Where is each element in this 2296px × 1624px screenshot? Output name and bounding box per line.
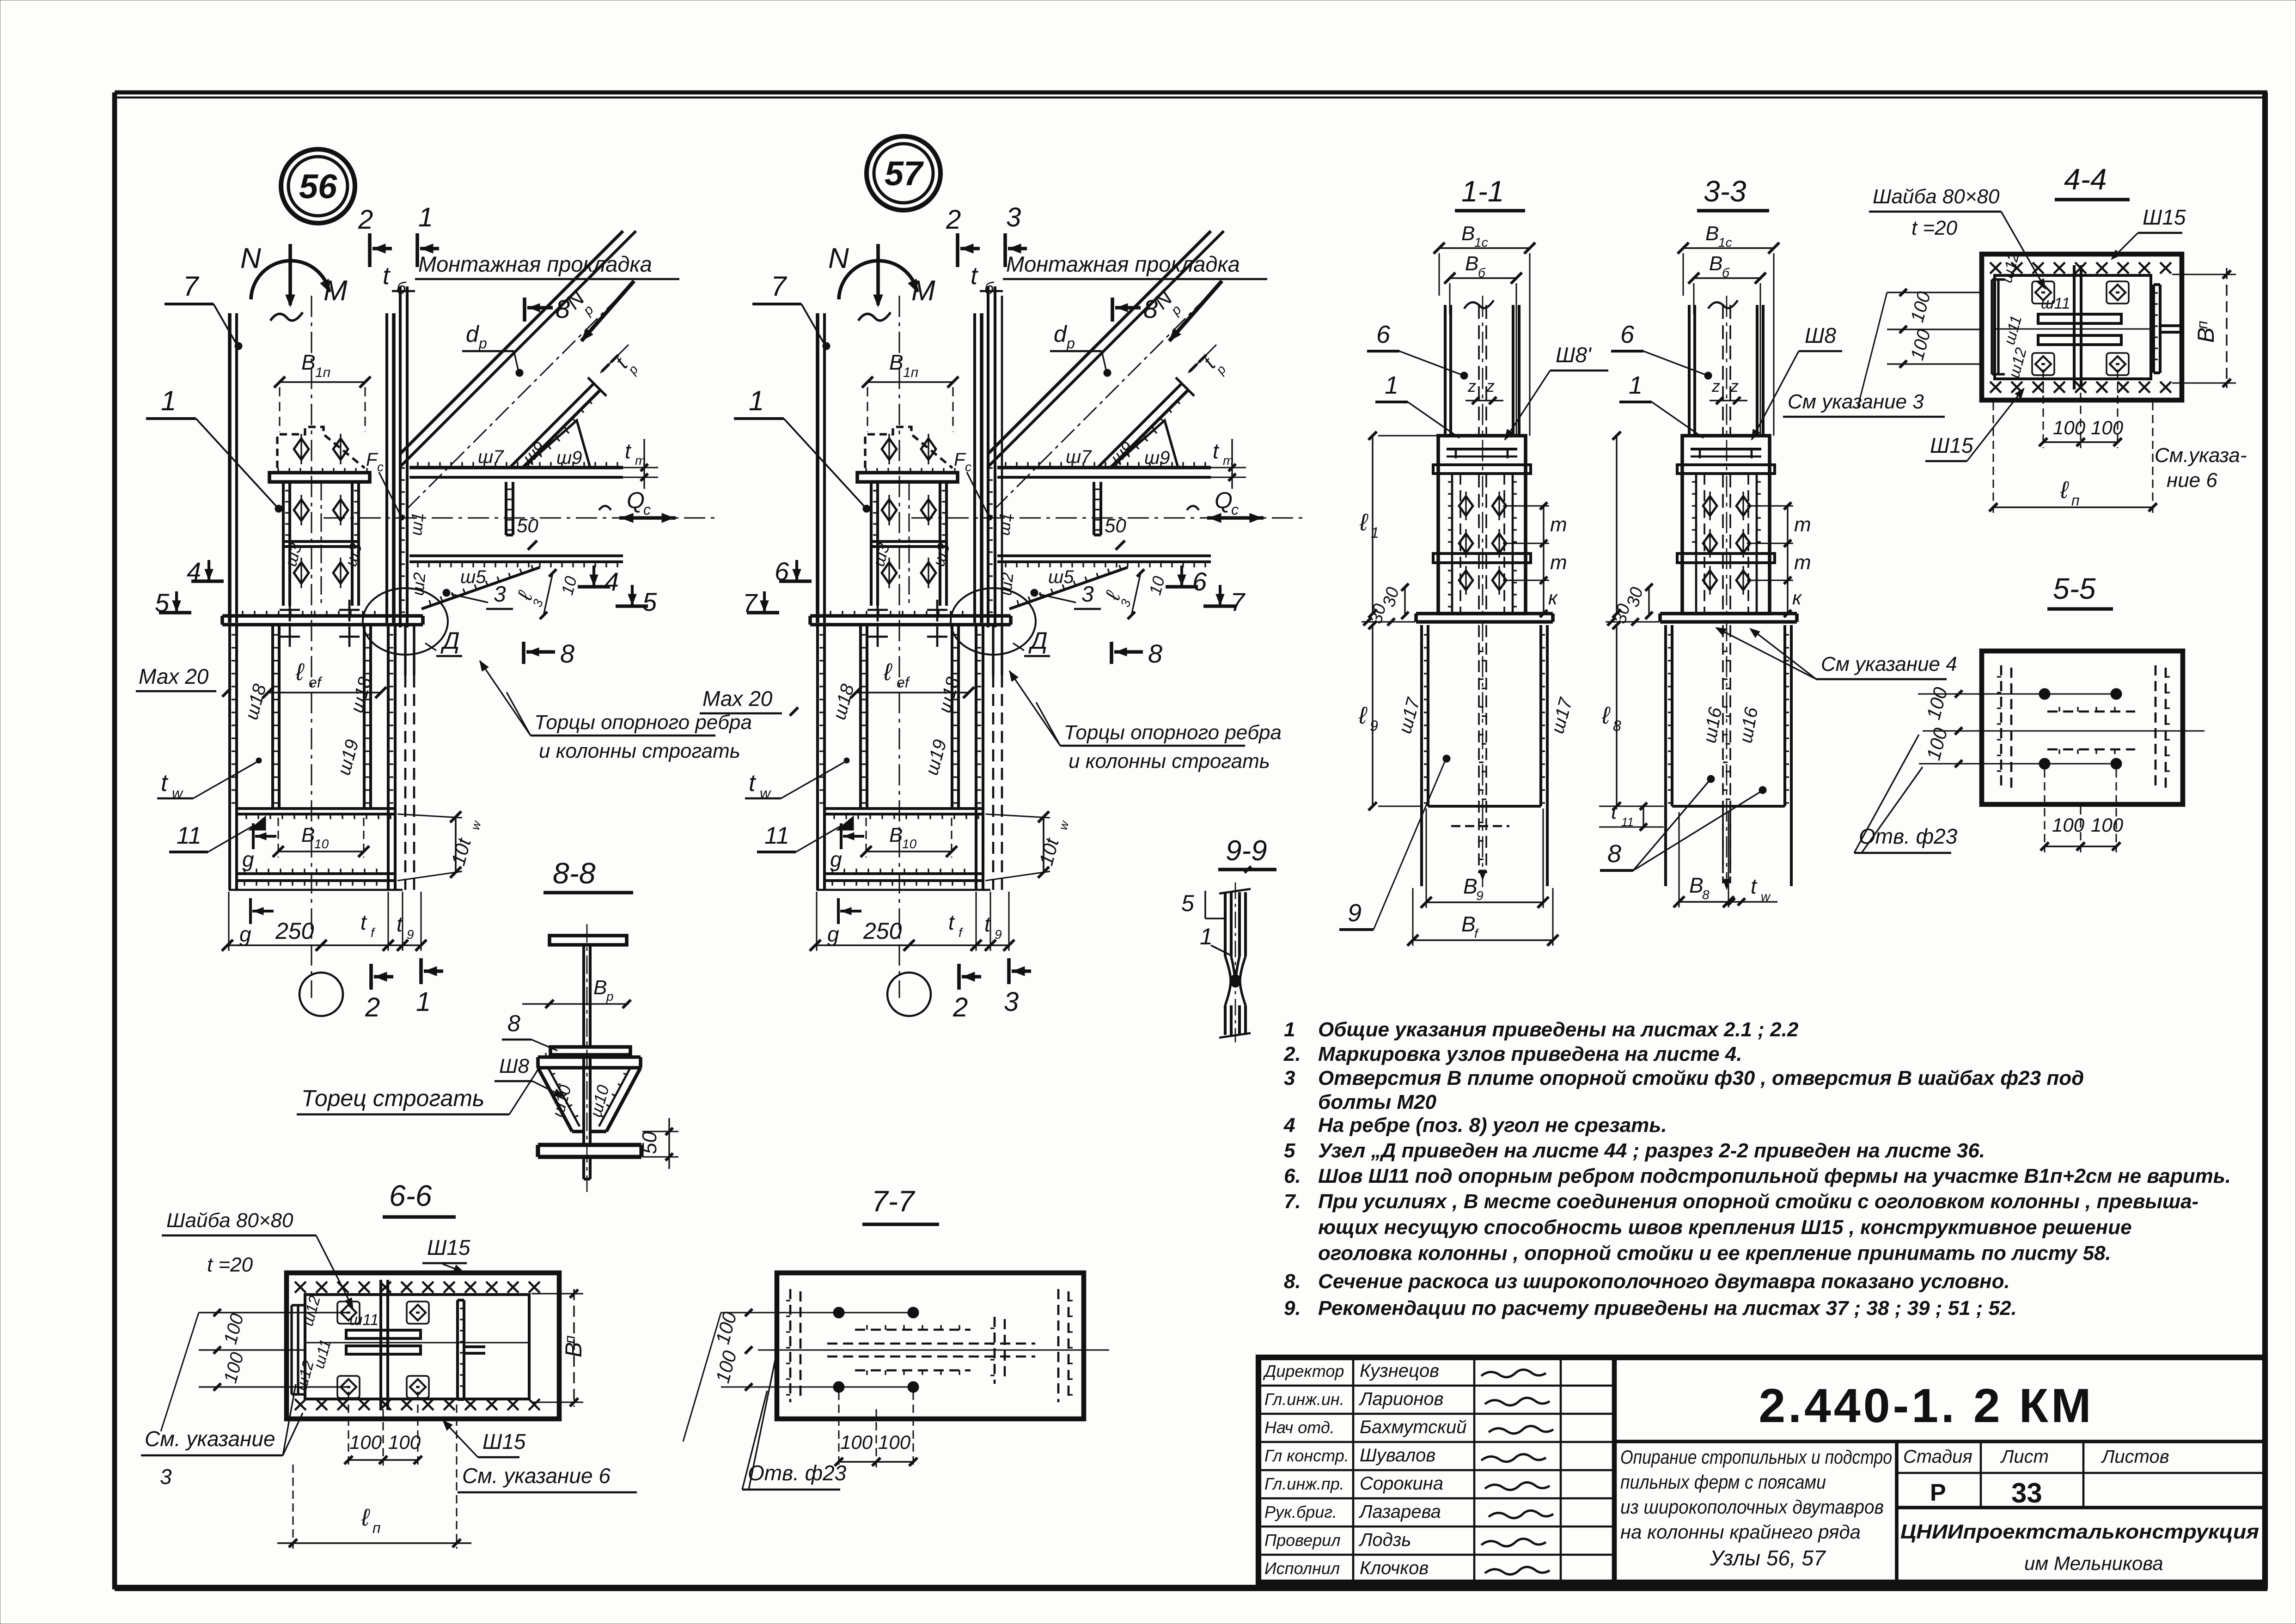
svg-text:8.: 8. [1284,1270,1301,1293]
node 56 column cut line [229,889,403,891]
node 56 bottom section markers [369,964,373,990]
svg-text:2: 2 [953,992,968,1022]
node 56 moment symbol N M [288,244,292,305]
svg-text:Шайба 80×80: Шайба 80×80 [166,1209,293,1232]
section 1-1 post inner lines [1451,474,1453,614]
section 8-8 post top plate [538,1055,641,1059]
svg-text:Отверстия В плите опорно: Отверстия В плите опорной стойки ф30 , о… [1318,1067,2084,1089]
node 57 cap plate (опорное ребро) [810,614,1011,618]
node 56 bracket dashed tab plate [277,427,365,468]
svg-text:В: В [301,824,315,846]
section 7-7 left hidden channel [789,1289,792,1402]
node 56 lower column bottom plate [236,872,396,875]
node 56 dimension 10tw [455,817,457,872]
node 56 column centerline [311,296,312,998]
node 56 bracket bolts [294,499,309,521]
svg-text:t: t [1213,439,1220,463]
svg-text:5-5: 5-5 [2053,572,2096,605]
svg-text:На ребре (поз. 8) угол не с: На ребре (поз. 8) угол не срезать. [1318,1114,1667,1137]
svg-text:F: F [366,450,379,470]
section 4-4 central web [2073,265,2076,389]
node 57 rib below cap [992,625,994,675]
section 4-4 x weld rows [1990,262,2171,274]
section 6-6 left dims 100 [199,1312,348,1313]
svg-text:Сорокина: Сорокина [1360,1473,1443,1494]
svg-text:оголовка колонны , опорной: оголовка колонны , опорной стойки и ее к… [1318,1242,2111,1265]
svg-text:z: z [1486,377,1495,395]
svg-text:2.440-1. 2 КМ: 2.440-1. 2 КМ [1759,1379,2094,1433]
section 4-4 bolts [2032,281,2054,304]
section 3-3 post collars [1677,465,1775,474]
svg-text:N: N [828,243,849,274]
node 57 top section markers [956,233,959,267]
section 9-9 column sketch [1224,892,1227,956]
section 4-4 Ш11 strips [2038,314,2121,323]
svg-text:50: 50 [1105,515,1126,536]
node 56 marker g lower [249,898,252,924]
svg-text:ш1: ш1 [406,511,427,536]
svg-text:100: 100 [2052,814,2085,836]
svg-text:1: 1 [1629,371,1643,399]
svg-text:Гл.инж.ин.: Гл.инж.ин. [1264,1390,1344,1409]
svg-text:им Мельникова: им Мельникова [2024,1552,2163,1574]
svg-text:п: п [2194,321,2211,329]
svg-text:g: g [242,847,254,871]
node 56 dimension B1п [280,381,365,383]
svg-text:В: В [1463,874,1478,898]
svg-text:1: 1 [161,385,176,416]
svg-text:ш11: ш11 [349,1311,379,1329]
node 57 bracket I-section [870,482,873,606]
svg-text:6: 6 [1192,567,1207,596]
node 57 section marker 8 upper [1111,298,1114,322]
svg-text:11: 11 [177,822,202,849]
svg-text:Ш8': Ш8' [1556,343,1592,367]
svg-text:6: 6 [1620,321,1635,348]
svg-text:2: 2 [358,205,373,235]
svg-text:8-8: 8-8 [553,857,596,890]
svg-text:Шов Ш11 под опорным ребром по: Шов Ш11 под опорным ребром подстропильно… [1318,1165,2231,1187]
svg-text:из широкополочных двутавров: из широкополочных двутавров [1620,1496,1884,1518]
svg-text:11: 11 [764,822,789,849]
section 1-1 post bolts [1459,496,1473,516]
node 57 gusset triangle [1111,420,1178,468]
svg-text:2.: 2. [1283,1043,1301,1065]
svg-text:См. указание 6: См. указание 6 [462,1464,611,1488]
svg-text:t: t [1751,874,1758,898]
node 56 detail circle Д [363,588,448,655]
svg-text:ℓ: ℓ [1358,702,1368,729]
svg-text:ш5: ш5 [460,567,486,587]
svg-text:Монтажная прокладка: Монтажная прокладка [418,252,652,276]
svg-text:Ш15: Ш15 [482,1429,526,1454]
svg-text:7: 7 [1230,587,1246,616]
node 56 mounting plate (прокладка) [399,286,402,627]
svg-text:1-1: 1-1 [1461,175,1504,208]
svg-text:c: c [1231,501,1239,518]
svg-text:z: z [1711,377,1720,395]
svg-text:7.: 7. [1284,1190,1301,1213]
svg-text:5: 5 [642,587,657,616]
svg-text:Ш8: Ш8 [499,1055,529,1077]
section 4-4 outer box [1982,254,2182,400]
svg-text:1: 1 [1385,371,1398,399]
svg-text:Исполнил: Исполнил [1264,1559,1340,1578]
svg-text:ш7: ш7 [1066,447,1092,467]
svg-text:9.: 9. [1284,1297,1301,1320]
section 7-7 axis lines [758,1350,1109,1351]
node 57 column upper flanges [816,313,819,623]
svg-text:6-6: 6-6 [389,1179,432,1212]
section 7-7 center hidden plates [855,1329,971,1331]
svg-text:8: 8 [507,1010,520,1036]
svg-text:Ш8: Ш8 [1805,323,1836,347]
node 56 beam stiffener and 50 [505,482,507,535]
svg-text:В: В [1689,873,1704,897]
section 3-3 dims m m k [1787,506,1788,580]
section 6-6 bolts [337,1302,360,1324]
svg-text:3: 3 [1006,202,1021,232]
node 57 dimension lef [856,692,969,693]
svg-text:Гл.инж.пр.: Гл.инж.пр. [1264,1474,1344,1493]
svg-text:Стадия: Стадия [1903,1447,1972,1467]
svg-text:4: 4 [605,567,619,596]
svg-text:ℓ: ℓ [2060,477,2069,504]
svg-text:57: 57 [885,154,924,193]
svg-text:7: 7 [183,271,200,302]
node 56 lower column flanges [228,625,231,890]
svg-text:и колонны строгать: и колонны строгать [1069,750,1270,772]
svg-text:d: d [1054,321,1068,347]
svg-text:Рекомендации по расчету пр: Рекомендации по расчету приведены на лис… [1318,1297,2017,1320]
svg-text:ℓ: ℓ [1359,509,1368,536]
svg-text:Клочков: Клочков [1360,1558,1429,1578]
node 57 diagonal ш5 plate [1009,567,1128,609]
svg-text:В: В [1465,252,1478,275]
section 5-5 outer box [1982,651,2183,804]
svg-text:Общие указания приведены: Общие указания приведены на листах 2.1 ;… [1318,1018,1799,1041]
node 56 column upper flanges [228,313,232,623]
svg-text:ℓ: ℓ [1601,702,1611,729]
svg-text:р: р [606,989,614,1004]
svg-text:В: В [1705,222,1719,245]
section 6-6 right dim [573,1289,574,1407]
svg-text:Лист: Лист [2000,1447,2049,1467]
svg-text:50: 50 [517,515,538,536]
svg-text:8: 8 [1702,888,1710,902]
node 56 truss beam bottom chord [409,554,623,557]
svg-text:1с: 1с [1718,235,1732,249]
node 57 marker g lower [837,898,840,924]
svg-text:5: 5 [1181,890,1194,916]
svg-text:В: В [1709,252,1722,275]
svg-text:Q: Q [627,487,645,513]
svg-text:m: m [1550,551,1567,574]
svg-text:10: 10 [314,837,329,851]
svg-text:ш1: ш1 [994,511,1015,536]
node 56 section marker 8 upper [523,298,526,322]
section 4-4 right dim [2226,268,2227,388]
title block outer frame [1258,1357,2265,1582]
svg-text:6: 6 [1376,321,1391,348]
svg-text:c: c [965,460,971,474]
svg-text:9-9: 9-9 [1226,835,1267,867]
section 1-1 dimension B1c [1439,247,1530,249]
svg-text:Опирание стропильных и подст: Опирание стропильных и подстро [1620,1446,1892,1468]
svg-text:т: т [1223,453,1233,468]
section 6-6 x weld rows [295,1282,540,1293]
section 3-3 post bolts [1703,496,1717,516]
svg-text:Торцы опорного ребра: Торцы опорного ребра [1064,721,1282,744]
svg-text:1с: 1с [1474,235,1488,249]
svg-text:t: t [749,770,757,797]
svg-text:t: t [1611,801,1618,823]
node 57 detail circle Д [951,588,1036,655]
section 6-6 central web [379,1280,382,1410]
svg-text:50: 50 [638,1131,661,1154]
svg-text:Торец строгать: Торец строгать [301,1085,484,1111]
section 5-5 center hidden plates [2047,711,2135,713]
section 4-4 inner plate [1995,275,2151,379]
svg-text:8: 8 [1613,718,1621,734]
section 6-6 Ш11 strips [346,1330,421,1338]
section 1-1 dimension l9 [1372,625,1373,806]
node 57 bracket dashed tab plate [865,427,953,468]
svg-text:ef: ef [897,674,910,691]
svg-text:2: 2 [365,992,380,1022]
svg-text:болты М20: болты М20 [1318,1091,1437,1113]
section 3-3 column [1688,305,1691,436]
svg-text:ш5: ш5 [1048,567,1074,587]
section 1-1 dimension B9 [1426,901,1543,903]
svg-text:на колонны крайнего ряда: на колонны крайнего ряда [1620,1521,1861,1543]
svg-text:В: В [593,976,607,999]
svg-text:100: 100 [349,1431,382,1453]
svg-text:t: t [161,770,169,797]
svg-text:8: 8 [556,294,570,323]
node 57 truss beam bottom chord [997,554,1211,557]
node 56 brace end cut and dim tp [588,377,606,396]
svg-text:t: t [360,910,367,934]
node 57 force arrow Np [1169,281,1222,341]
node 57 lower column splice [824,807,983,810]
svg-text:б: б [397,279,407,298]
section 3-3 support post box [1682,436,1770,614]
node 57 column centerline [899,296,900,998]
section 1-1 web hidden lines [1478,625,1480,873]
svg-text:Лодзь: Лодзь [1358,1530,1411,1550]
svg-text:t: t [625,439,632,463]
node 56 cap plate (опорное ребро) [222,614,423,618]
svg-text:Мах 20: Мах 20 [139,664,209,688]
svg-text:к: к [1792,587,1802,608]
svg-text:ℓ: ℓ [295,659,305,686]
node 57 beam dim t_t [1211,467,1246,468]
svg-text:g: g [830,847,842,871]
node 56 beam dim t_t [623,467,658,468]
node 56 lower column splice [237,807,395,810]
section 8-8 dimension 50 [642,1131,678,1132]
svg-text:9: 9 [1476,888,1484,903]
section 8-8 dimension Bp [545,1003,629,1004]
svg-text:1п: 1п [315,365,330,380]
svg-text:Отв. ф23: Отв. ф23 [748,1461,847,1485]
svg-text:1п: 1п [903,365,918,380]
svg-text:См указание 4: См указание 4 [1821,653,1957,675]
svg-text:Ш15: Ш15 [1930,433,1973,457]
svg-text:2: 2 [946,205,961,235]
svg-text:В: В [2193,328,2219,343]
svg-text:250: 250 [863,918,902,944]
node 56 bottom circle [299,973,343,1016]
svg-text:Шайба 80×80: Шайба 80×80 [1873,185,2000,208]
svg-text:ef: ef [309,674,323,691]
svg-text:Сечение раскоса из широкоп: Сечение раскоса из широкополочного двута… [1318,1270,2010,1293]
svg-text:100: 100 [2091,417,2124,438]
title block signatures [1481,1369,1546,1377]
svg-text:c: c [643,501,651,518]
svg-text:Узлы 56, 57: Узлы 56, 57 [1710,1546,1826,1570]
node 57 section marker 8 lower [1110,642,1113,664]
svg-text:M: M [324,275,348,307]
svg-text:9: 9 [407,927,414,942]
node 57 lower column flanges [816,625,819,890]
svg-text:Ш15: Ш15 [2143,205,2186,229]
node 57 beam axis [911,517,1307,519]
svg-text:В: В [889,350,904,374]
svg-text:Мах 20: Мах 20 [702,687,773,711]
svg-text:ℓ: ℓ [361,1504,370,1531]
svg-text:9: 9 [1348,899,1362,927]
section 5-5 right hidden channel [2155,665,2157,790]
section 7-7 bolt dots [833,1307,844,1318]
section 5-5 axis lines [1923,730,2204,732]
section 6-6 inner plate [305,1295,529,1399]
section 3-3 dim l1 line [1616,436,1617,614]
node 56 force arrow Np [581,281,634,341]
svg-text:Ларионов: Ларионов [1358,1389,1444,1409]
svg-text:Маркировка узлов приведена: Маркировка узлов приведена на листе 4. [1318,1043,1742,1065]
node 57 bracket top bolts [882,438,897,460]
svg-text:z: z [1467,377,1476,395]
node 57 truss beam top chord [997,466,1211,469]
svg-text:33: 33 [2011,1478,2042,1508]
svg-text:9: 9 [1370,718,1378,734]
svg-text:8: 8 [1148,639,1162,668]
section 1-1 post collars [1433,465,1531,474]
section 5-5 bolt dots [2039,688,2050,699]
svg-text:t: t [948,910,955,934]
svg-text:Рук.бриг.: Рук.бриг. [1264,1502,1337,1521]
svg-text:ш9: ш9 [556,448,582,468]
svg-text:Торцы опорного ребра: Торцы опорного ребра [534,711,752,734]
svg-text:3: 3 [1284,1067,1295,1089]
svg-text:z: z [1730,377,1739,395]
svg-text:1: 1 [749,385,764,416]
section 8-8 stub [582,1157,585,1179]
svg-text:t: t [971,262,978,290]
section 8-8 funnel plates [538,1068,572,1131]
svg-text:ℓ: ℓ [883,659,892,686]
svg-text:1: 1 [1200,924,1213,949]
title block name table grid [1258,1385,1614,1387]
node 57 brace end cut and dim tp [1176,377,1194,396]
svg-text:3: 3 [494,582,506,607]
svg-text:8: 8 [560,639,574,668]
node 56 bracket flange plate [269,473,370,482]
node 57 diagonal brace [988,231,1211,454]
section 3-3 lower column box [1664,625,1667,806]
svg-text:Q: Q [1215,487,1233,513]
svg-text:В: В [1461,912,1476,936]
svg-text:б: б [1722,266,1730,280]
section 3-3 dimension l8 [1616,625,1617,806]
node marker circle 56 [281,149,355,223]
svg-text:В: В [301,350,316,374]
svg-text:1: 1 [1371,524,1379,541]
svg-text:ш11: ш11 [2041,295,2070,312]
svg-text:п: п [562,1335,578,1344]
section 1-1 dimension l1 [1372,436,1373,614]
section 1-1 dimension Bf [1413,939,1553,941]
svg-text:ние 6: ние 6 [2167,469,2217,492]
svg-text:d: d [466,321,480,347]
svg-text:Ш15: Ш15 [427,1235,470,1259]
node 56 bracket top bolts [294,438,309,460]
node 57 mounting plate (прокладка) [987,286,989,627]
svg-text:1: 1 [418,202,433,232]
node marker circle 57 [867,136,940,210]
svg-text:Монтажная прокладка: Монтажная прокладка [1006,252,1240,276]
section 3-3 post inner lines [1695,474,1698,614]
svg-text:пильных ферм с поясами: пильных ферм с поясами [1620,1471,1826,1493]
svg-text:g: g [239,922,251,946]
svg-text:1: 1 [1284,1018,1295,1041]
node 57 lower column bottom plate [824,872,984,875]
page border frame [115,90,2267,94]
node 57 bottom circle [887,973,931,1016]
svg-text:Проверил: Проверил [1264,1531,1341,1550]
svg-text:Узел „Д приведен на листе 44: Узел „Д приведен на листе 44 ; разрез 2-… [1318,1139,1985,1162]
node 57 dimension B1п [867,381,953,383]
section 1-1 support post box [1438,436,1526,614]
node 56 lower column stiffener welds ш18 [271,625,274,809]
node 56 gusset triangle [523,420,590,468]
node 57 dimension 10tw [1043,817,1044,872]
svg-text:100: 100 [2091,814,2124,836]
section 1-1 lower column box [1420,625,1423,806]
section 6-6 outer box [287,1273,559,1419]
node 56 rib below cap [404,625,406,675]
svg-text:4-4: 4-4 [2064,163,2107,196]
section 4-4 left channel [1991,280,1993,374]
node 56 diagonal brace [400,231,623,454]
svg-text:Шувалов: Шувалов [1360,1445,1435,1466]
svg-text:Д: Д [440,627,460,654]
node 56 truss beam top chord [409,466,623,469]
svg-text:п: п [2071,492,2080,509]
svg-text:8: 8 [1607,840,1621,868]
svg-text:t =20: t =20 [207,1253,253,1276]
node 56 top section markers [368,233,372,267]
section 1-1 column [1444,305,1447,436]
section 3-3 lower column tail [1664,806,1667,886]
node 57 lower column stiffener welds ш18 [859,625,862,809]
svg-text:б: б [1478,266,1486,280]
svg-text:M: M [911,275,935,307]
svg-text:Нач отд.: Нач отд. [1264,1418,1335,1437]
node 56 bracket I-section [282,482,285,606]
